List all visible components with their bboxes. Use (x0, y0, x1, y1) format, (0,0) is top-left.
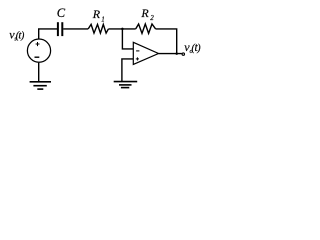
voltage source VS minus sign (35, 56, 40, 58)
wire R2 to feedback corner and down to output (156, 29, 177, 54)
svg-text:2: 2 (150, 14, 154, 22)
svg-text:C: C (57, 6, 66, 20)
svg-text:1: 1 (101, 16, 105, 24)
op-amp U1 plus sign (non-inverting input) (136, 57, 139, 60)
wire non-inverting input to ground (122, 59, 133, 81)
svg-text:R: R (140, 6, 149, 20)
wire source bottom to ground (38, 63, 40, 82)
ground right (op-amp reference) (114, 82, 138, 88)
voltage source VS plus sign (36, 42, 40, 46)
capacitor C1 value label C (57, 6, 66, 20)
resistor R2 (136, 24, 156, 33)
node B feedback junction dot (175, 52, 178, 55)
op-amp U1 (133, 42, 158, 64)
wire op-amp output to terminal (159, 53, 182, 55)
svg-text:): ) (20, 30, 25, 41)
svg-text:R: R (92, 7, 101, 21)
output terminal (open circle) (182, 53, 184, 55)
capacitor C1 (58, 22, 62, 36)
node A junction dot (121, 28, 124, 31)
wire node A down to inverting input (122, 29, 133, 49)
node vo label (184, 40, 201, 55)
resistor R1 label (92, 7, 105, 24)
wire source top to capacitor (39, 29, 58, 39)
op-amp U1 minus sign (inverting input) (136, 50, 139, 52)
node vs label (9, 28, 25, 43)
wire capacitor to R1 (63, 28, 88, 30)
ground left (source return) (30, 82, 51, 89)
wire R1 to node A and on to R2 (108, 28, 135, 30)
resistor R2 label (140, 6, 154, 22)
svg-text:): ) (196, 43, 201, 54)
voltage source VS (27, 39, 50, 62)
resistor R1 (88, 24, 108, 33)
